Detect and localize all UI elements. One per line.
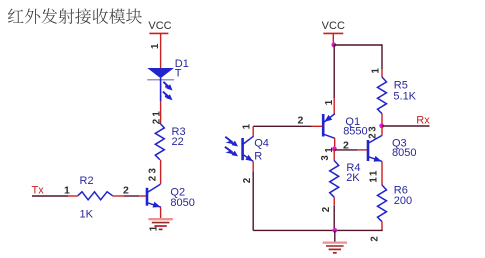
junction at VCC node: [331, 42, 336, 47]
ground (receiver): [323, 241, 347, 243]
svg-text:2: 2: [343, 139, 349, 151]
svg-text:1: 1: [368, 177, 379, 183]
svg-text:8050: 8050: [392, 147, 416, 159]
svg-text:1: 1: [324, 99, 335, 105]
svg-text:2: 2: [148, 176, 159, 181]
resistor R6: [378, 185, 387, 222]
wire R6 to ground rail: [381, 222, 383, 231]
wire Q3 emitter to R6: [381, 162, 383, 186]
svg-text:Rx: Rx: [416, 114, 430, 126]
svg-text:8050: 8050: [170, 197, 194, 209]
Q4 incident light arrow 1: [225, 137, 234, 144]
wire R5 to Rx node: [381, 114, 383, 126]
wire Tx to R2: [32, 195, 68, 197]
phototransistor Q4: [243, 136, 254, 161]
svg-text:1: 1: [368, 170, 379, 176]
svg-text:2K: 2K: [346, 172, 360, 184]
svg-text:3: 3: [148, 168, 159, 174]
transistor Q2 (NPN 8050): [147, 184, 161, 207]
wire R3 to Q2 collector: [160, 160, 162, 185]
transistor Q3 (NPN 8050): [368, 135, 382, 161]
svg-text:2: 2: [370, 236, 381, 241]
power VCC (receiver): [323, 32, 343, 34]
svg-text:2: 2: [123, 184, 129, 196]
wire VCC to D1: [160, 33, 162, 68]
wire Rx node to Rx: [382, 125, 430, 127]
wire VCC node to R5: [334, 44, 382, 46]
wire Q2 emitter to ground: [160, 207, 162, 219]
svg-text:2: 2: [367, 133, 378, 138]
ground rail wire: [253, 229, 383, 231]
junction Rx node: [379, 123, 384, 128]
resistor R2: [78, 192, 113, 200]
svg-text:2: 2: [298, 114, 304, 126]
svg-text:VCC: VCC: [322, 20, 345, 32]
svg-text:1: 1: [242, 123, 253, 129]
D1 emission arrow 1: [163, 82, 169, 87]
wire VCC node to Q1 emitter: [333, 45, 335, 98]
svg-text:1: 1: [64, 184, 70, 196]
power VCC (transmitter): [149, 32, 168, 34]
junction at ground: [332, 228, 337, 233]
svg-text:2: 2: [242, 178, 253, 183]
svg-text:1: 1: [152, 111, 163, 117]
resistor R3: [155, 123, 164, 160]
wire R4 to ground rail: [333, 197, 335, 206]
svg-text:Tx: Tx: [32, 184, 45, 196]
svg-text:3: 3: [320, 155, 331, 161]
ground (transmitter): [148, 218, 172, 220]
junction Q1 collector / R4 / Q3 base: [332, 147, 337, 152]
transistor Q1 (PNP 8550): [323, 114, 335, 139]
wire D1 to R3: [160, 101, 162, 123]
svg-text:R2: R2: [80, 175, 94, 187]
resistor R5: [378, 77, 387, 114]
svg-text:1: 1: [150, 43, 161, 49]
svg-text:8550: 8550: [343, 126, 367, 138]
D1 emission arrow 2: [163, 92, 169, 97]
Q4 incident light arrow 2: [225, 147, 234, 154]
resistor R4: [330, 161, 339, 198]
title 红外发射接收模块: [8, 8, 142, 24]
svg-text:VCC: VCC: [148, 20, 171, 32]
diode D1 (IR LED): [147, 68, 174, 78]
svg-text:1: 1: [324, 147, 335, 153]
svg-text:1K: 1K: [80, 208, 94, 220]
wire R2 to Q2 base: [113, 195, 124, 197]
svg-text:2: 2: [321, 207, 332, 212]
wire Q4 collector to Q1 base: [253, 125, 312, 127]
wire Q4 collector up: [252, 126, 254, 136]
svg-text:22: 22: [172, 136, 184, 148]
wire Rx node to Q3 collector: [381, 126, 383, 136]
svg-text:R: R: [254, 150, 262, 162]
svg-text:1: 1: [371, 68, 382, 74]
wire Q4 emitter down: [252, 162, 254, 172]
wire node to R4: [333, 149, 335, 161]
svg-text:Q4: Q4: [254, 137, 269, 149]
svg-text:3: 3: [367, 126, 378, 132]
wire to ground symbol: [334, 230, 336, 242]
svg-text:T: T: [175, 68, 182, 80]
svg-text:5.1K: 5.1K: [393, 90, 416, 102]
wire node to Q3 base: [334, 149, 357, 151]
svg-text:200: 200: [394, 195, 412, 207]
